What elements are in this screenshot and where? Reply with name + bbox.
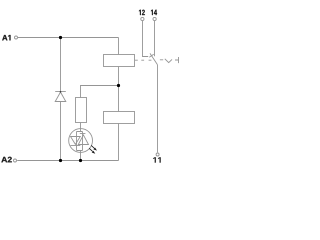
mechanical link end bar <box>175 57 179 63</box>
wire A1 rail <box>18 37 119 39</box>
wire coil to box2 <box>118 67 120 112</box>
resistor R1 <box>76 98 87 123</box>
relay coil K1 <box>104 55 135 67</box>
contact lever tick <box>149 54 153 57</box>
node junction coil/indicator <box>117 84 120 87</box>
wire contact 12 NC <box>143 21 149 57</box>
contact lever <box>150 53 158 64</box>
node diode apex contact <box>60 91 62 93</box>
mechanical link dashes <box>135 59 163 61</box>
terminal 14 <box>153 17 156 20</box>
label 12 <box>139 10 145 15</box>
terminal 11 <box>156 153 159 156</box>
wire coil branch upper <box>118 38 120 55</box>
node junction diode/A2 <box>59 159 62 162</box>
diode V1 <box>55 92 66 102</box>
LED anti-parallel loop <box>77 132 83 151</box>
terminal A2 <box>14 159 17 162</box>
wire 11 <box>157 65 159 153</box>
node junction A1/diode <box>59 36 62 39</box>
LED diode left down <box>71 137 81 146</box>
label A2 <box>1 157 11 163</box>
label 14 <box>151 10 157 15</box>
wire A2 rail <box>17 160 118 162</box>
label A1 <box>2 35 10 40</box>
wire diode branch upper <box>60 38 62 92</box>
label 11 <box>153 157 161 162</box>
wire indicator rail <box>81 86 119 98</box>
wire LED to A2 <box>80 151 82 161</box>
LED indicator circle <box>69 129 93 153</box>
wire box2 to A2 rail <box>118 124 120 161</box>
terminal A1 <box>15 36 18 39</box>
LED diode right up <box>78 134 88 145</box>
coil series box <box>104 112 135 124</box>
wire contact 14 NO <box>154 21 156 56</box>
LED emission arrow 2 <box>89 148 95 154</box>
node junction LED/A2 <box>79 159 82 162</box>
LED emission arrow 1 <box>91 145 97 150</box>
wire resistor to LED <box>80 123 82 132</box>
terminal 12 <box>141 17 144 20</box>
wire diode branch lower <box>60 102 62 161</box>
mechanical link v <box>165 59 172 63</box>
